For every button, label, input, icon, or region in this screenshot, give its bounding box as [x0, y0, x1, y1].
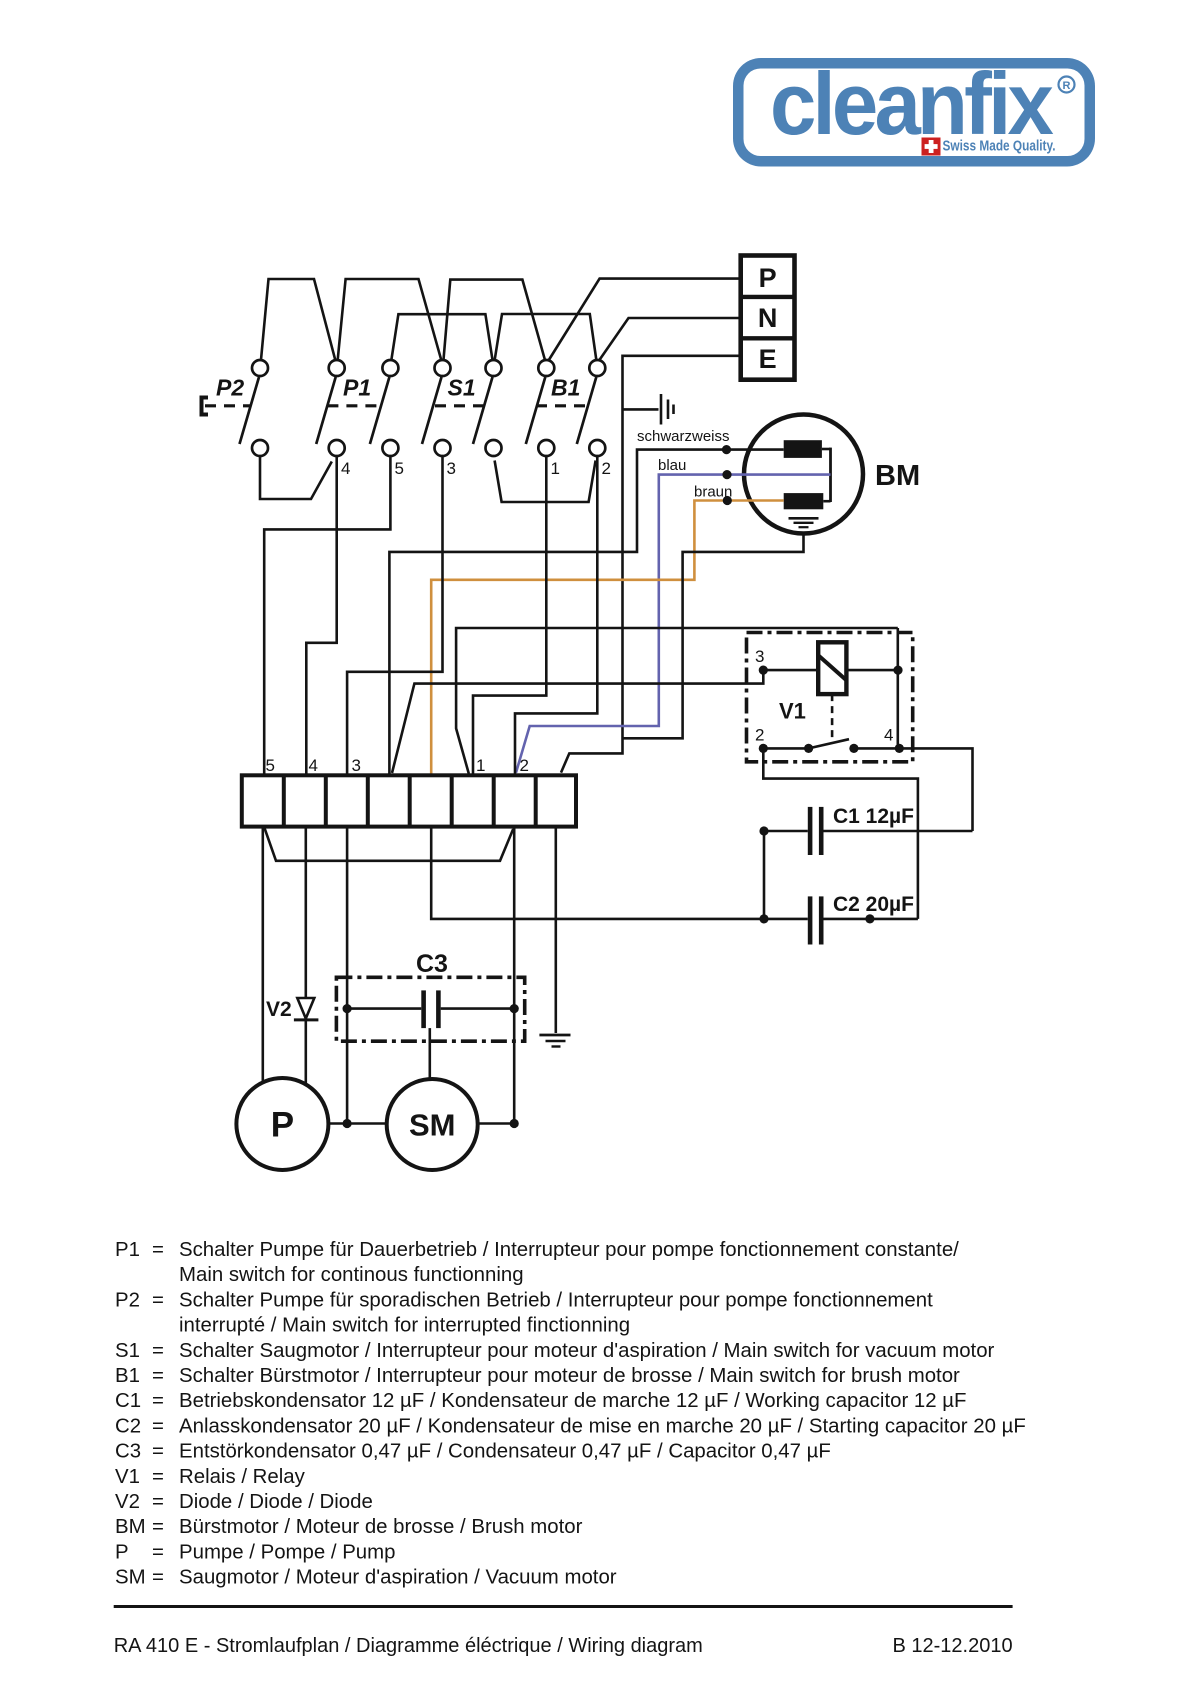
node pin 2 — [759, 744, 768, 753]
svg-text:BM: BM — [115, 1516, 146, 1538]
wire chain to N: P1b top / S1b top / B1b top / N — [391, 314, 492, 361]
svg-text:schwarzweiss: schwarzweiss — [637, 428, 730, 445]
dashed link S1 — [435, 404, 484, 407]
svg-text:1: 1 — [551, 459, 560, 478]
dashed link P2 — [205, 404, 250, 407]
svg-text:2: 2 — [602, 459, 611, 478]
svg-text:P1: P1 — [343, 375, 371, 401]
svg-text:=: = — [152, 1289, 164, 1311]
svg-text:Anlasskondensator 20 µF / Kond: Anlasskondensator 20 µF / Kondensateur d… — [179, 1415, 1026, 1437]
switch B1 pole a — [526, 360, 555, 456]
wire braun (orange) to terminal 5 — [431, 501, 784, 775]
svg-text:=: = — [152, 1390, 164, 1412]
wire contact 3 to terminal 3 — [347, 456, 442, 775]
svg-text:=: = — [152, 1567, 164, 1589]
svg-text:E: E — [759, 344, 777, 374]
switch S1 pole a — [422, 360, 451, 456]
wire contact 5 to terminal 5 — [264, 456, 390, 775]
node SM right — [510, 1119, 519, 1128]
svg-text:Swiss Made Quality.: Swiss Made Quality. — [943, 139, 1056, 155]
node contact a — [804, 744, 813, 753]
switch P1 pole a — [316, 360, 345, 456]
svg-text:4: 4 — [884, 726, 893, 745]
svg-text:=: = — [152, 1491, 164, 1513]
wire BM chassis to E line — [623, 534, 804, 739]
wire C1-C2 left link — [763, 831, 766, 919]
node C2 left — [759, 914, 768, 923]
diode V2 — [294, 998, 319, 1085]
brush motor BM — [744, 415, 863, 534]
capacitor C3 — [421, 990, 440, 1028]
dashed link P1 — [327, 404, 380, 407]
wire pin2 to C2 right — [763, 748, 918, 919]
svg-text:S1: S1 — [448, 375, 476, 401]
svg-text:=: = — [152, 1340, 164, 1362]
svg-text:V1: V1 — [779, 699, 806, 724]
wire contact 4 to terminal 4 — [306, 456, 336, 775]
relay contact line pin2 to pin4 — [763, 747, 808, 750]
wire terminal 4 to diode V2 — [304, 827, 307, 998]
svg-text:Relais / Relay: Relais / Relay — [179, 1466, 306, 1488]
svg-text:Diode / Diode / Diode: Diode / Diode / Diode — [179, 1491, 373, 1513]
node C2 mid — [865, 914, 874, 923]
svg-text:C2 20µF: C2 20µF — [833, 893, 914, 916]
svg-text:V1: V1 — [115, 1466, 140, 1488]
wire C3 right lead — [441, 1007, 515, 1010]
svg-text:P2: P2 — [115, 1289, 140, 1311]
node P-SM wire — [343, 1119, 352, 1128]
svg-text:V2: V2 — [266, 998, 292, 1021]
wire chain to P: P2 top / P1a top / S1a top / B1a top / P — [261, 279, 336, 361]
wire B1b bottom (2) to terminal 2 — [515, 456, 597, 775]
bracket for P2 — [202, 398, 209, 415]
svg-text:C1 12µF: C1 12µF — [833, 805, 914, 828]
svg-text:Main switch for continous func: Main switch for continous functionning — [179, 1264, 524, 1286]
svg-text:=: = — [152, 1466, 164, 1488]
svg-text:SM: SM — [409, 1108, 456, 1143]
switch P1 pole b — [370, 360, 399, 456]
node C3 right — [510, 1004, 519, 1013]
svg-text:C2: C2 — [115, 1415, 141, 1437]
wire blau (blue) to terminal 2 — [516, 475, 831, 773]
capacitor C1 — [808, 807, 824, 855]
svg-text:SM: SM — [115, 1567, 146, 1589]
terminal block P N E — [741, 256, 795, 380]
wire schwarzweiss to earth terminal — [389, 450, 783, 774]
junction braun — [723, 496, 732, 505]
svg-text:=: = — [152, 1541, 164, 1563]
svg-text:B 12-12.2010: B 12-12.2010 — [892, 1635, 1012, 1657]
wire terminal 5 to pump P — [261, 827, 264, 1083]
svg-text:=: = — [152, 1365, 164, 1387]
svg-text:3: 3 — [755, 647, 764, 666]
terminal strip — [242, 775, 576, 826]
svg-text:R: R — [1063, 80, 1071, 92]
svg-text:C3: C3 — [416, 950, 448, 978]
svg-text:4: 4 — [309, 756, 318, 775]
svg-text:1: 1 — [476, 756, 485, 775]
wire C1 left — [764, 830, 808, 833]
svg-text:Betriebskondensator 12 µF / Ko: Betriebskondensator 12 µF / Kondensateur… — [179, 1390, 966, 1412]
node pin 4 — [895, 744, 904, 753]
svg-text:interrupté / Main switch for i: interrupté / Main switch for interrupted… — [179, 1315, 630, 1337]
wire P to SM — [328, 1122, 386, 1125]
svg-text:P: P — [271, 1106, 294, 1145]
pump motor P — [236, 1078, 328, 1170]
wire C3 centre tap to SM — [428, 1028, 431, 1079]
wire C3 left lead — [347, 1007, 421, 1010]
wire C2 line from terminal block — [431, 827, 808, 919]
legend — [115, 1239, 1026, 1589]
relay coil V1 — [818, 642, 846, 694]
relay switch lever — [809, 739, 849, 748]
svg-text:B1: B1 — [551, 375, 580, 401]
svg-text:3: 3 — [352, 756, 361, 775]
wire terminal 3 to C3 left and motor line — [346, 827, 349, 1124]
capacitor C3 box — [336, 977, 524, 1041]
wire SM right — [478, 1122, 515, 1125]
svg-text:Schalter Pumpe für sporadische: Schalter Pumpe für sporadischen Betrieb … — [179, 1289, 933, 1311]
svg-text:5: 5 — [266, 756, 275, 775]
footer rule — [114, 1605, 1013, 1608]
svg-text:=: = — [152, 1239, 164, 1261]
svg-text:=: = — [152, 1441, 164, 1463]
svg-text:2: 2 — [755, 726, 764, 745]
svg-text:P: P — [115, 1541, 129, 1563]
svg-text:Pumpe / Pompe / Pump: Pumpe / Pompe / Pump — [179, 1541, 395, 1563]
svg-text:BM: BM — [875, 460, 920, 492]
svg-text:5: 5 — [395, 459, 404, 478]
dashed link B1 — [536, 404, 587, 407]
wire P2 bottom to contact 4 — [260, 456, 332, 499]
junction blau — [722, 470, 731, 479]
wire S1b bottom to B1b bottom — [495, 461, 596, 503]
svg-text:Schalter Bürstmotor / Interrup: Schalter Bürstmotor / Interrupteur pour … — [179, 1365, 960, 1387]
dashed actuator link — [831, 694, 834, 741]
switch S1 pole b — [473, 360, 502, 456]
svg-text:=: = — [152, 1516, 164, 1538]
switch P2 — [240, 360, 269, 456]
wire coil to right node — [846, 669, 898, 672]
suction motor SM — [387, 1079, 478, 1170]
svg-text:2: 2 — [520, 756, 529, 775]
svg-text:P: P — [759, 263, 777, 293]
svg-text:=: = — [152, 1415, 164, 1437]
node contact b — [849, 744, 858, 753]
wire relay line to terminal 1 — [456, 628, 898, 774]
svg-text:Bürstmotor / Moteur de brosse: Bürstmotor / Moteur de brosse / Brush mo… — [179, 1516, 583, 1538]
wire E to earth vertical — [561, 356, 741, 773]
svg-text:RA 410 E - Stromlaufplan / Dia: RA 410 E - Stromlaufplan / Diagramme élé… — [114, 1635, 703, 1657]
wire terminal earth cell to chassis ground — [554, 827, 557, 1033]
svg-text:N: N — [758, 303, 778, 333]
node C3 left — [343, 1004, 352, 1013]
svg-text:Schalter Saugmotor / Interrupt: Schalter Saugmotor / Interrupteur pour m… — [179, 1340, 995, 1362]
chassis ground symbol — [539, 1035, 570, 1047]
wire stub to earth symbol — [623, 408, 659, 411]
wire pin4 to C1 right — [899, 748, 972, 831]
wire C1 right — [824, 830, 973, 833]
svg-text:Schalter Pumpe für Dauerbetrie: Schalter Pumpe für Dauerbetrieb / Interr… — [179, 1239, 959, 1261]
capacitor C2 — [808, 896, 824, 944]
junction schwarzweiss — [722, 445, 731, 454]
svg-text:3: 3 — [447, 459, 456, 478]
wire right node drop — [896, 628, 899, 748]
cleanfix logo — [733, 54, 1095, 167]
svg-text:C1: C1 — [115, 1390, 141, 1412]
svg-text:blau: blau — [658, 457, 686, 474]
node pin 3 — [759, 666, 768, 675]
wire relay pin3 line to earth terminal — [392, 670, 763, 773]
earth symbol (antenna style) — [661, 394, 674, 425]
svg-text:C3: C3 — [115, 1441, 141, 1463]
wire C2 right — [824, 918, 918, 921]
wire terminal 2 cell to C3 right and SM line — [513, 827, 516, 1124]
svg-text:4: 4 — [341, 459, 350, 478]
wire B1a bottom (1) to terminal 1 — [473, 456, 546, 775]
relay V1 box — [747, 633, 913, 762]
svg-text:Entstörkondensator 0,47 µF /: Entstörkondensator 0,47 µF / Condensateu… — [179, 1441, 831, 1463]
svg-text:Saugmotor / Moteur d'aspiratio: Saugmotor / Moteur d'aspiration / Vacuum… — [179, 1567, 617, 1589]
svg-text:V2: V2 — [115, 1491, 140, 1513]
node C1 left — [759, 826, 768, 835]
wire bridge terminal 5 to terminal 2 (below strip) — [264, 827, 513, 861]
svg-text:S1: S1 — [115, 1340, 140, 1362]
svg-text:P2: P2 — [216, 375, 244, 401]
switch B1 pole b — [577, 360, 606, 456]
svg-text:P1: P1 — [115, 1239, 140, 1261]
node coil right — [893, 666, 902, 675]
svg-text:B1: B1 — [115, 1365, 140, 1387]
wire pin3 to coil — [763, 669, 818, 672]
